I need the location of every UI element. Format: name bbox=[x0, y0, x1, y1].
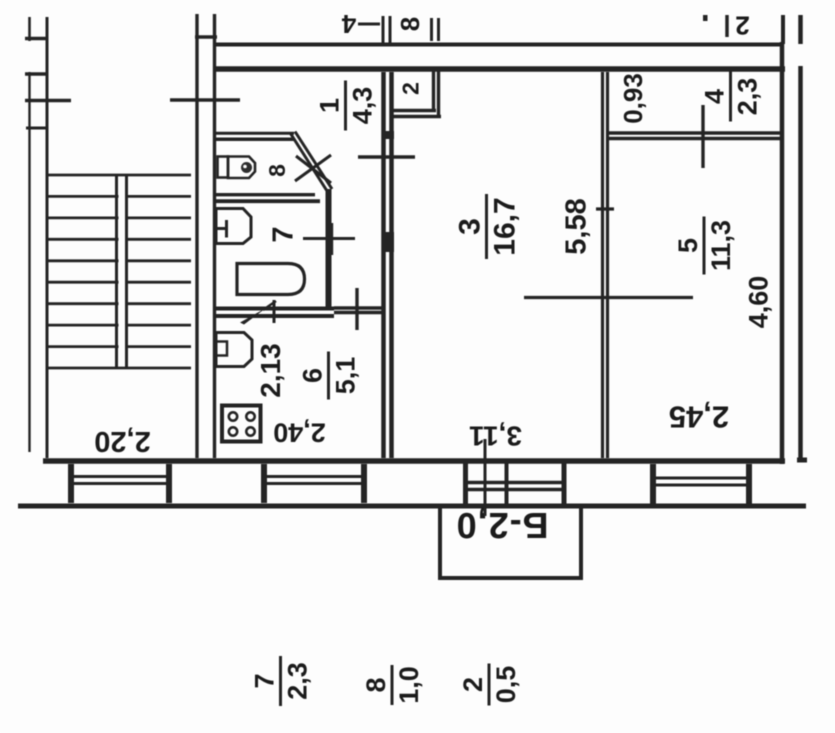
balcony unit glazing 2 bbox=[463, 488, 566, 491]
svg-text:16,7: 16,7 bbox=[489, 197, 522, 255]
right outer wall bottom stub bbox=[797, 458, 807, 463]
porch glazing line 1 bbox=[74, 475, 166, 478]
room label 8 bbox=[264, 164, 290, 177]
wc top wall line 1 bbox=[216, 132, 294, 135]
balcony door unit divider bbox=[505, 462, 509, 505]
gas stove body bbox=[222, 406, 261, 442]
room5 fraction 5/11,3 bbox=[673, 217, 736, 275]
balcony left side bbox=[438, 505, 442, 580]
closet right outer line bbox=[437, 71, 440, 118]
room5 height label 4,60 bbox=[744, 276, 774, 329]
stair wall crossbar tick bbox=[195, 35, 217, 38]
bathtub bbox=[237, 264, 305, 295]
bath right wall bbox=[326, 189, 332, 308]
kitchen window right jamb bbox=[361, 464, 367, 503]
room3 wall tick bbox=[358, 155, 415, 158]
kitchen width label 2,13 bbox=[255, 343, 286, 398]
svg-text:6: 6 bbox=[298, 368, 328, 383]
svg-text:8: 8 bbox=[264, 164, 290, 177]
corridor fraction 4/2,3 bbox=[700, 72, 763, 122]
stair treads bbox=[46, 175, 191, 368]
porch glazing line 2 bbox=[74, 482, 166, 485]
top fragment label 8 bbox=[395, 17, 425, 31]
room5 width label 2,45 bbox=[669, 400, 729, 435]
stove burner 3 bbox=[229, 427, 237, 435]
top fragment tick bbox=[725, 15, 729, 37]
wall between wc and bath line 2 bbox=[216, 199, 320, 203]
right outer wall inner line bbox=[780, 42, 785, 464]
top fragment dot bbox=[703, 15, 708, 21]
svg-text:4,3: 4,3 bbox=[348, 87, 378, 125]
washbasin bath bbox=[216, 209, 251, 244]
svg-text:Б-2,0: Б-2,0 bbox=[456, 505, 549, 546]
toilet wc bowl bbox=[228, 157, 255, 179]
corridor width label 0,93 bbox=[618, 73, 648, 124]
kitchen sink bbox=[216, 333, 252, 367]
door tick bbox=[273, 300, 276, 323]
bottom fraction 2/0,5 bbox=[458, 664, 521, 706]
svg-text:5: 5 bbox=[673, 238, 703, 253]
stairwell right wall line 1 bbox=[195, 14, 198, 458]
stair wall long tick bbox=[170, 98, 240, 101]
bottom fraction 7/2,3 bbox=[250, 656, 313, 706]
left wall window tick 2 bbox=[25, 72, 48, 75]
svg-text:2: 2 bbox=[735, 11, 749, 41]
wall segment bath to room3 line 2 bbox=[334, 311, 383, 315]
svg-text:2,40: 2,40 bbox=[273, 418, 326, 448]
corridor bottom wall line 2 bbox=[609, 137, 781, 140]
svg-text:5,1: 5,1 bbox=[331, 357, 361, 395]
room5 wall tick bbox=[596, 207, 614, 210]
washbasin tap bar bbox=[225, 220, 228, 238]
room3 bottom label 3,11 bbox=[469, 421, 522, 452]
top tick pair 2a bbox=[430, 18, 433, 41]
svg-text:7: 7 bbox=[250, 673, 280, 688]
right outer wall outer line bbox=[798, 66, 803, 460]
stair flight divider gap bbox=[119, 177, 126, 367]
hallway fraction 1/4,3 bbox=[315, 81, 378, 131]
room3 wall dark core upper bbox=[382, 131, 394, 139]
left wall long tick bbox=[25, 99, 71, 102]
kitchen window glazing 1 bbox=[267, 475, 361, 478]
door leaf triangle bbox=[240, 308, 266, 325]
washbasin tap stem bbox=[215, 227, 227, 230]
porch right jamb bbox=[166, 464, 172, 503]
corridor tick vertical bbox=[701, 105, 704, 168]
svg-text:2,20: 2,20 bbox=[94, 425, 150, 457]
svg-text:4: 4 bbox=[700, 89, 730, 104]
wall between wc and bath line 1 bbox=[216, 193, 315, 196]
vent X mark line 2 bbox=[296, 156, 331, 183]
room5 window right jamb bbox=[746, 464, 752, 504]
room3 long tick bbox=[524, 296, 693, 299]
svg-text:2,3: 2,3 bbox=[283, 662, 313, 700]
left outer wall outer line lower bbox=[28, 72, 30, 452]
top fragment dash bbox=[358, 23, 380, 26]
kitchen sink tap bbox=[216, 342, 227, 356]
svg-text:1,0: 1,0 bbox=[394, 666, 424, 704]
room5 window glazing 2 bbox=[656, 484, 746, 487]
room3 width label 5,58 bbox=[561, 198, 593, 254]
top tick pair 1b bbox=[389, 16, 392, 43]
hallway/room3 wall line 1 bbox=[381, 72, 386, 458]
ground baseline bbox=[18, 504, 806, 509]
svg-text:4,60: 4,60 bbox=[744, 276, 774, 329]
svg-text:2: 2 bbox=[398, 82, 424, 95]
left wall window tick 1 bbox=[25, 37, 48, 40]
corridor bottom wall line 1 bbox=[609, 131, 781, 134]
top right corner vertical inner bbox=[781, 15, 785, 44]
stairwell right wall line 2 bbox=[213, 14, 216, 458]
room3 wall dark core lower bbox=[382, 232, 394, 252]
wc top wall line 2 bbox=[216, 137, 294, 141]
kitchen length label 2,40 bbox=[273, 418, 326, 448]
top fragment label 2 bbox=[735, 11, 749, 41]
stove burner 4 bbox=[246, 427, 254, 435]
room3/room5 wall line 1 bbox=[601, 72, 604, 458]
room3 fraction 3/16,7 bbox=[454, 194, 522, 259]
svg-text:2,45: 2,45 bbox=[669, 400, 729, 435]
wc diagonal wall inner bbox=[295, 132, 332, 190]
closet label 2 bbox=[398, 82, 424, 95]
stove burner 2 bbox=[246, 412, 254, 420]
closet bottom inner line bbox=[390, 109, 436, 112]
stair divider right line bbox=[125, 175, 128, 368]
top tick pair 2b bbox=[437, 18, 440, 41]
balcony bottom bbox=[438, 576, 583, 580]
svg-text:1: 1 bbox=[315, 98, 345, 113]
bath bottom wall line 2 bbox=[216, 314, 334, 318]
bottom fraction 8/1,0 bbox=[361, 665, 424, 705]
wall segment bath to room3 line 1 bbox=[334, 306, 383, 310]
tick on kitchen top wall bbox=[355, 288, 358, 330]
top wall lower line bbox=[214, 66, 785, 72]
svg-text:11,3: 11,3 bbox=[706, 220, 736, 271]
room5 window glazing 1 bbox=[656, 477, 746, 480]
top wall upper line bbox=[214, 43, 784, 47]
balcony door unit right jamb bbox=[562, 462, 567, 505]
kitchen window left jamb bbox=[261, 464, 267, 503]
bath bottom wall line 1 bbox=[216, 307, 334, 311]
door leaf diagonal bbox=[263, 301, 276, 310]
stove burner 1 bbox=[229, 412, 237, 420]
svg-text:0,5: 0,5 bbox=[491, 666, 521, 704]
balcony label bbox=[456, 505, 549, 546]
bath tick horizontal bbox=[303, 237, 355, 240]
svg-text:0,93: 0,93 bbox=[618, 73, 648, 124]
stair landing label 2,20 bbox=[94, 425, 150, 457]
balcony unit glazing 1 bbox=[463, 481, 566, 484]
toilet wc tank bbox=[218, 157, 229, 178]
top right corner vertical outer bbox=[798, 15, 803, 44]
room3/room5 wall line 2 bbox=[606, 72, 609, 458]
closet right inner line bbox=[432, 71, 435, 112]
left wall window tick 4 bbox=[26, 127, 47, 130]
balcony right side bbox=[579, 505, 583, 580]
balcony door unit left jamb bbox=[463, 462, 468, 505]
porch left jamb bbox=[68, 464, 74, 503]
svg-text:8: 8 bbox=[395, 17, 425, 31]
balcony door tick bbox=[484, 439, 487, 516]
kitchen room fraction 6/5,1 bbox=[298, 352, 361, 400]
kitchen window glazing 2 bbox=[267, 482, 361, 485]
svg-text:4: 4 bbox=[341, 9, 356, 39]
bottom wall inner line bbox=[43, 458, 785, 464]
room5 window left jamb bbox=[650, 464, 656, 504]
vent X mark line 1 bbox=[295, 155, 331, 181]
svg-text:8: 8 bbox=[361, 677, 391, 692]
left outer wall inner line bbox=[46, 17, 49, 458]
svg-text:5,58: 5,58 bbox=[561, 198, 593, 254]
svg-text:3,11: 3,11 bbox=[469, 421, 522, 452]
left outer wall outer line upper bbox=[28, 17, 31, 41]
toilet wc flush circle bbox=[241, 162, 252, 173]
wc diagonal wall outer bbox=[291, 134, 329, 193]
top fragment label 4 bbox=[341, 9, 356, 39]
svg-text:2,13: 2,13 bbox=[255, 343, 286, 398]
svg-text:3: 3 bbox=[454, 218, 487, 235]
hallway/room3 wall line 2 bbox=[389, 72, 394, 458]
svg-text:2: 2 bbox=[458, 677, 488, 692]
top tick pair 1a bbox=[382, 16, 385, 43]
svg-text:2,3: 2,3 bbox=[733, 78, 763, 116]
room label 7 bbox=[268, 226, 300, 242]
bath wall tick vertical bbox=[330, 223, 333, 255]
svg-text:7: 7 bbox=[268, 226, 300, 242]
closet bottom outer line bbox=[390, 115, 441, 118]
stair divider left line bbox=[115, 175, 118, 368]
